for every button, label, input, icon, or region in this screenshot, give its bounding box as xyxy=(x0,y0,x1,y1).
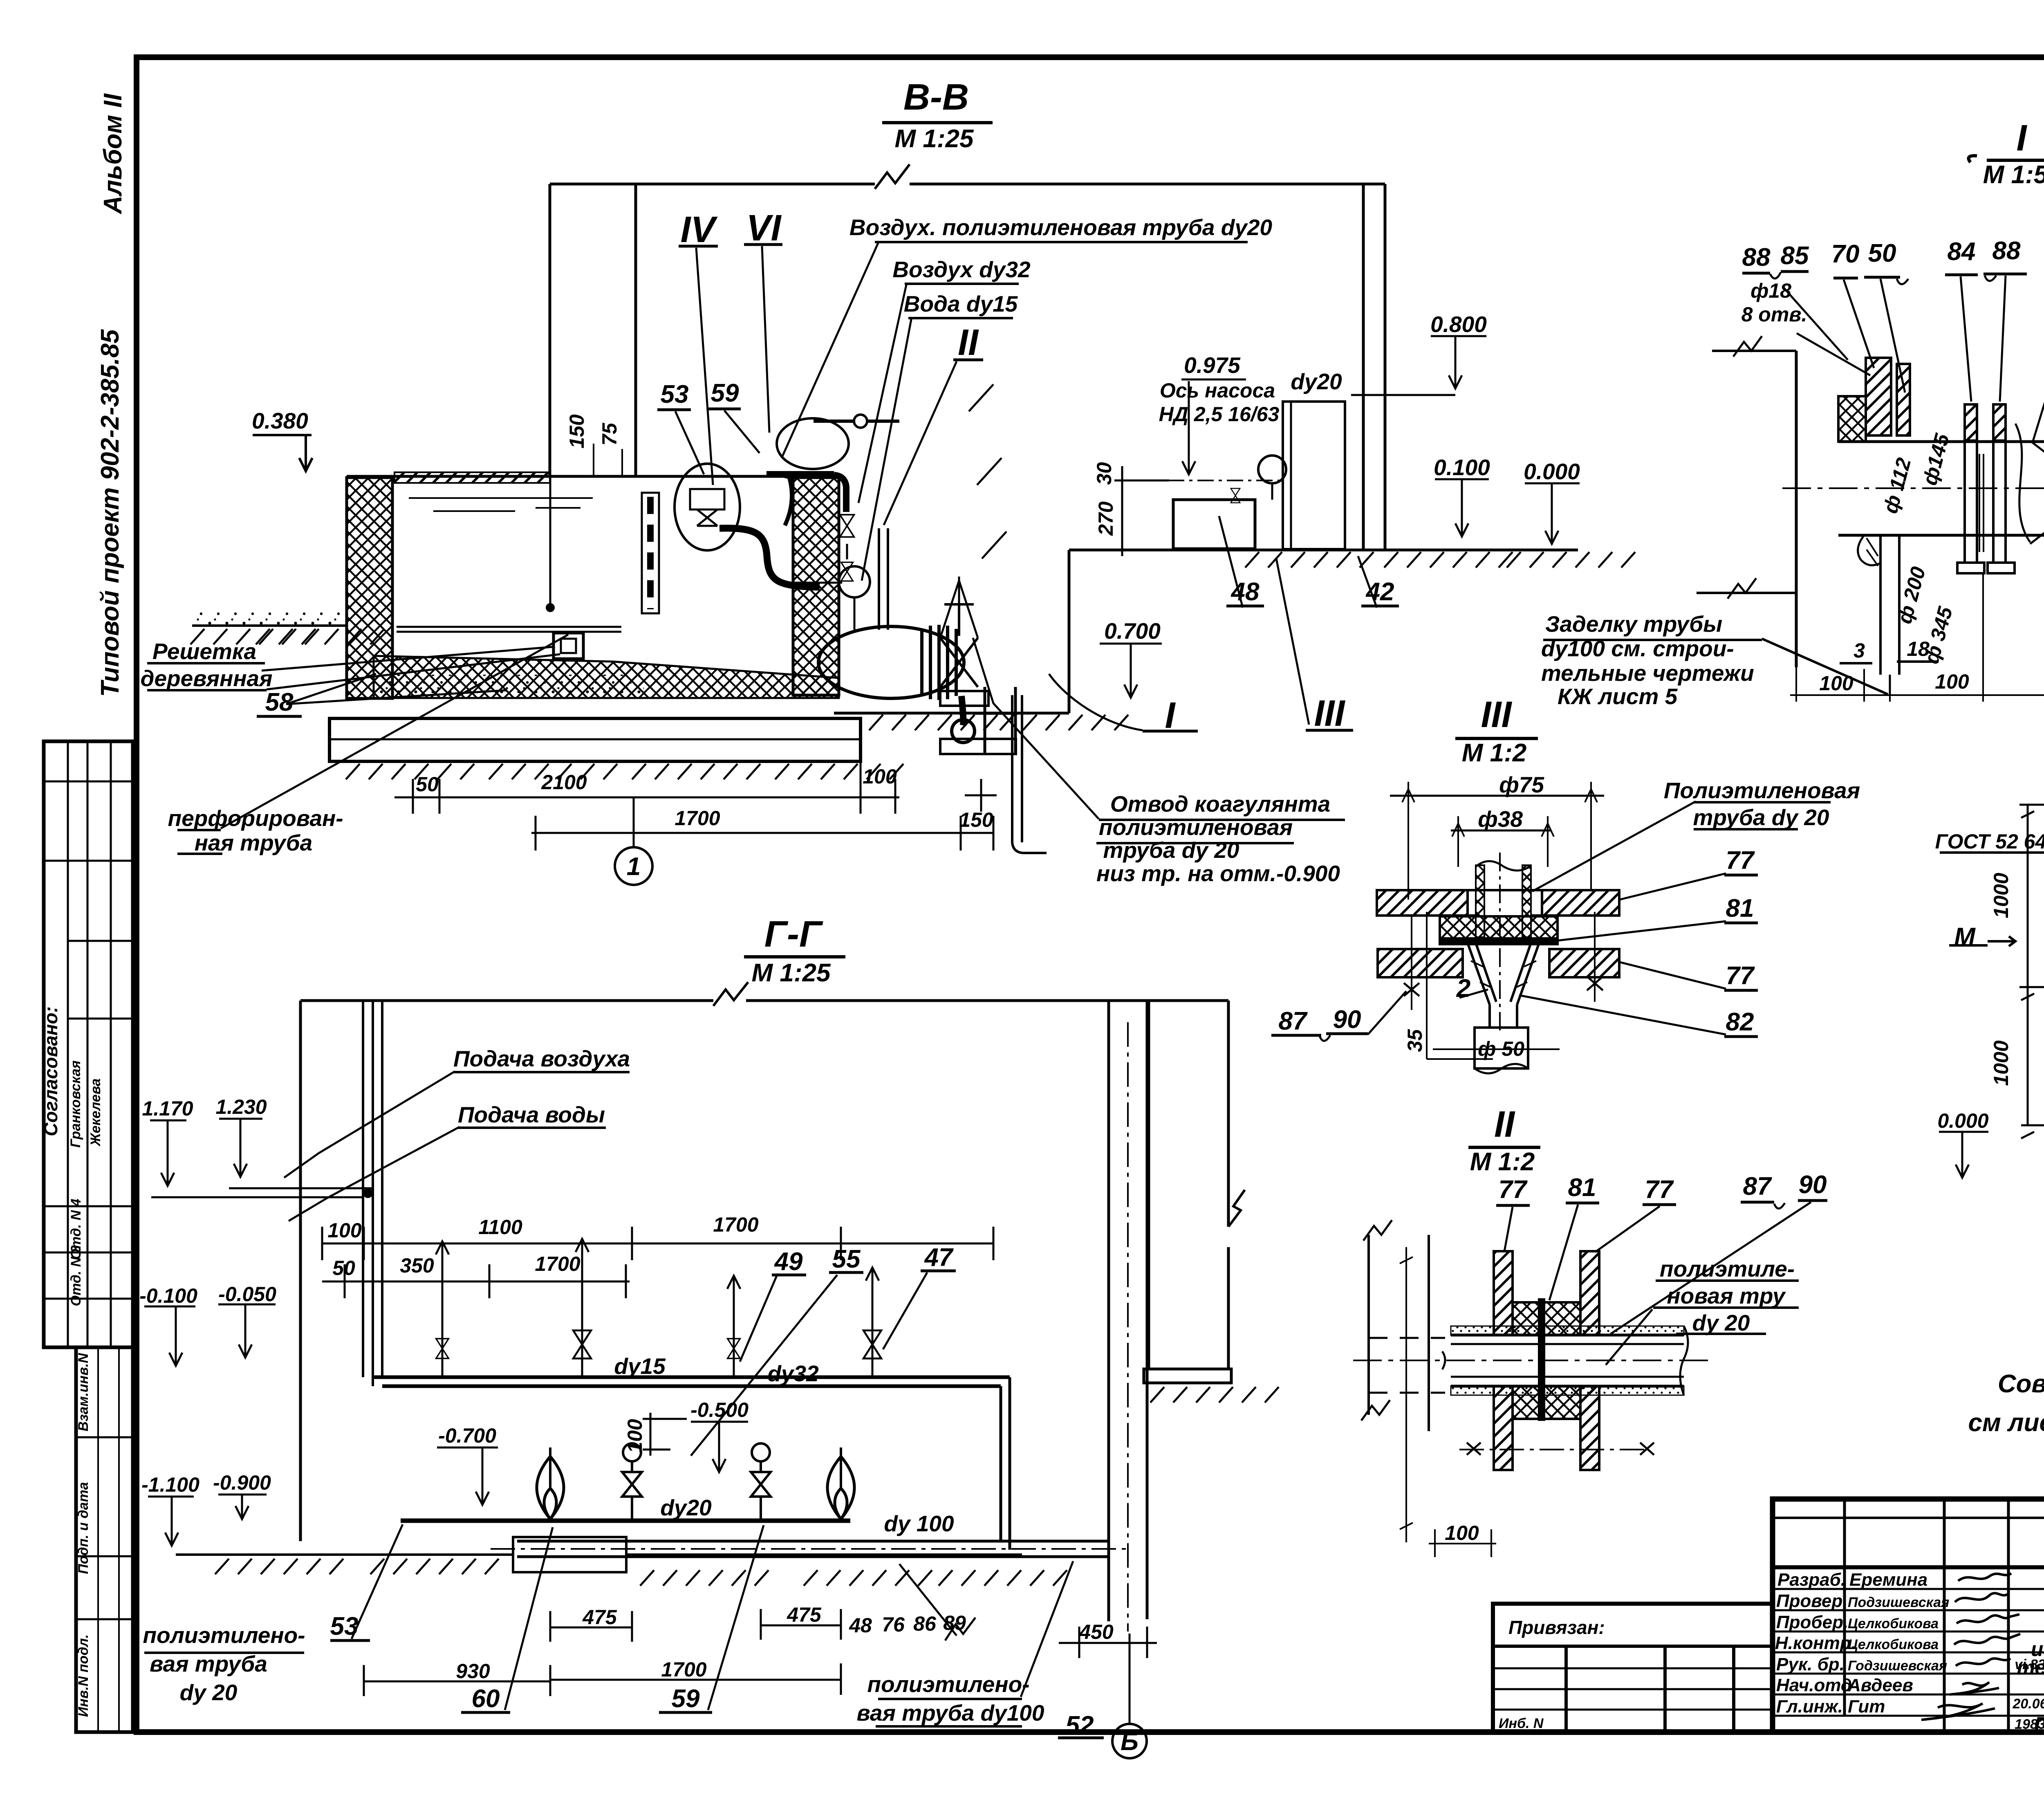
svg-text:Отвод коагулянта: Отвод коагулянта xyxy=(1110,791,1330,817)
svg-text:КЖ лист 5: КЖ лист 5 xyxy=(1558,684,1678,709)
svg-text:тельностью 10 куб. м. в час.: тельностью 10 куб. м. в час. xyxy=(2017,1656,2044,1679)
svg-text:Пробер.: Пробер. xyxy=(1776,1612,1848,1632)
svg-text:77: 77 xyxy=(1726,962,1755,990)
svg-text:75: 75 xyxy=(598,422,621,446)
svg-text:низ тр. на отм.-0.900: низ тр. на отм.-0.900 xyxy=(1096,861,1340,886)
svg-text:100: 100 xyxy=(1935,670,1969,693)
svg-text:90: 90 xyxy=(1333,1005,1361,1034)
svg-text:Согласовано:: Согласовано: xyxy=(40,1006,61,1136)
svg-text:труба dу 20: труба dу 20 xyxy=(1103,837,1239,863)
svg-text:100: 100 xyxy=(1445,1522,1479,1544)
svg-text:VI: VI xyxy=(746,208,782,249)
svg-text:1700: 1700 xyxy=(675,807,720,830)
svg-text:Нач.отд: Нач.отд xyxy=(1776,1675,1852,1695)
svg-text:100: 100 xyxy=(863,765,897,788)
svg-text:930: 930 xyxy=(456,1660,490,1683)
svg-text:70: 70 xyxy=(1831,240,1860,268)
svg-text:0.975: 0.975 xyxy=(1184,352,1241,378)
svg-text:53: 53 xyxy=(661,380,689,408)
svg-text:-1.100: -1.100 xyxy=(141,1473,199,1496)
svg-text:42: 42 xyxy=(1365,578,1394,606)
svg-text:II: II xyxy=(1494,1104,1515,1145)
svg-text:Еремина: Еремина xyxy=(1849,1570,1927,1590)
svg-text:20.06: 20.06 xyxy=(2012,1696,2044,1712)
svg-text:dу20: dу20 xyxy=(1291,369,1342,394)
svg-text:Вода dу15: Вода dу15 xyxy=(904,291,1018,316)
svg-text:77: 77 xyxy=(1645,1176,1674,1204)
svg-text:59: 59 xyxy=(672,1685,700,1713)
svg-text:тельные чертежи: тельные чертежи xyxy=(1541,660,1754,686)
svg-text:Воздух dу32: Воздух dу32 xyxy=(892,257,1031,282)
svg-text:Типовой проект 902-2-385.85: Типовой проект 902-2-385.85 xyxy=(96,329,124,697)
svg-text:полиэтиле-: полиэтиле- xyxy=(1660,1256,1795,1281)
svg-text:475: 475 xyxy=(582,1606,617,1629)
svg-text:Подача воды: Подача воды xyxy=(458,1102,605,1127)
svg-text:новая тру: новая тру xyxy=(1667,1283,1786,1308)
svg-text:77: 77 xyxy=(1726,846,1755,875)
svg-text:Гл.инж.: Гл.инж. xyxy=(1776,1697,1843,1717)
svg-text:500: 500 xyxy=(2041,923,2044,958)
svg-text:0.700: 0.700 xyxy=(1104,618,1161,644)
svg-text:dу32: dу32 xyxy=(767,1361,819,1386)
svg-text:Рук. бр.: Рук. бр. xyxy=(1776,1654,1845,1674)
svg-text:50: 50 xyxy=(416,773,439,796)
svg-text:Б: Б xyxy=(1121,1728,1139,1756)
svg-text:вая труба dу100: вая труба dу100 xyxy=(857,1700,1044,1726)
svg-text:II: II xyxy=(958,322,979,363)
svg-text:Годзишевская: Годзишевская xyxy=(1848,1658,1947,1674)
svg-text:Совместно с данным листом: Совместно с данным листом xyxy=(1998,1370,2044,1398)
svg-text:ф 50: ф 50 xyxy=(1478,1037,1524,1060)
svg-text:90: 90 xyxy=(1799,1171,1827,1199)
svg-text:35: 35 xyxy=(1403,1029,1426,1052)
svg-text:I: I xyxy=(1165,695,1176,736)
svg-text:dу 20: dу 20 xyxy=(1692,1310,1750,1335)
svg-text:60: 60 xyxy=(472,1685,500,1713)
svg-text:III: III xyxy=(1314,693,1345,734)
svg-text:Привязан:: Привязан: xyxy=(1508,1617,1605,1638)
svg-text:dу15: dу15 xyxy=(614,1353,666,1379)
svg-text:ГОСТ 52 64 -80: ГОСТ 52 64 -80 xyxy=(1935,830,2044,853)
svg-text:0.000: 0.000 xyxy=(1937,1109,1988,1132)
svg-text:М: М xyxy=(1954,923,1976,951)
svg-text:58: 58 xyxy=(265,688,294,716)
svg-text:вая труба: вая труба xyxy=(150,1651,267,1676)
svg-text:Ось насоса: Ось насоса xyxy=(1160,379,1275,402)
svg-text:М 1:25: М 1:25 xyxy=(752,959,831,987)
svg-text:Разраб.: Разраб. xyxy=(1777,1570,1846,1590)
svg-text:Провер.: Провер. xyxy=(1776,1591,1847,1611)
svg-text:dу20: dу20 xyxy=(660,1495,712,1520)
svg-text:0.100: 0.100 xyxy=(1434,455,1490,480)
svg-text:Целкобикова: Целкобикова xyxy=(1848,1637,1939,1652)
svg-text:100: 100 xyxy=(1819,672,1853,695)
svg-text:полиэтиленовая: полиэтиленовая xyxy=(1099,815,1293,840)
svg-text:0.000: 0.000 xyxy=(1524,459,1580,484)
svg-text:350: 350 xyxy=(400,1254,434,1277)
svg-text:48: 48 xyxy=(1230,578,1260,606)
svg-text:Отд. N 3: Отд. N 3 xyxy=(68,1245,84,1306)
svg-text:475: 475 xyxy=(787,1603,822,1626)
svg-text:270: 270 xyxy=(1094,501,1117,536)
svg-text:труба dу 20: труба dу 20 xyxy=(1693,805,1829,830)
svg-text:Заделку трубы: Заделку трубы xyxy=(1545,611,1722,637)
svg-text:деревянная: деревянная xyxy=(140,666,272,691)
svg-text:Альбом II: Альбом II xyxy=(99,93,127,215)
svg-text:полиэтилено-: полиэтилено- xyxy=(143,1622,305,1648)
svg-text:М 1:25: М 1:25 xyxy=(895,125,974,153)
svg-text:88: 88 xyxy=(1992,237,2021,265)
svg-text:30: 30 xyxy=(1093,462,1116,485)
svg-text:88: 88 xyxy=(1742,243,1771,272)
svg-text:8 отв.: 8 отв. xyxy=(1741,303,1807,326)
svg-text:77: 77 xyxy=(1499,1176,1528,1204)
svg-text:Авдеев: Авдеев xyxy=(1847,1675,1913,1695)
svg-text:450: 450 xyxy=(1079,1620,1114,1643)
svg-text:ф38: ф38 xyxy=(1478,806,1523,832)
svg-text:81: 81 xyxy=(1726,894,1754,922)
svg-text:ф18: ф18 xyxy=(1750,279,1791,302)
svg-text:87: 87 xyxy=(1279,1007,1308,1035)
svg-text:-0.100: -0.100 xyxy=(139,1284,197,1307)
svg-text:Гит: Гит xyxy=(1848,1697,1885,1717)
svg-text:полиэтилено-: полиэтилено- xyxy=(867,1672,1029,1697)
svg-text:ф75: ф75 xyxy=(1499,772,1544,797)
svg-text:55: 55 xyxy=(832,1245,861,1273)
svg-text:53: 53 xyxy=(330,1612,359,1640)
svg-text:-0.500: -0.500 xyxy=(690,1398,749,1421)
svg-text:Подп. и дата: Подп. и дата xyxy=(76,1482,91,1574)
svg-text:76: 76 xyxy=(882,1613,905,1636)
svg-text:М 1:5: М 1:5 xyxy=(1983,161,2044,189)
svg-text:50: 50 xyxy=(1868,239,1896,267)
svg-text:Целкобикова: Целкобикова xyxy=(1848,1616,1939,1631)
svg-text:86: 86 xyxy=(913,1612,937,1635)
svg-text:81: 81 xyxy=(1568,1174,1596,1202)
svg-text:I: I xyxy=(2016,118,2027,159)
svg-text:1000: 1000 xyxy=(1990,873,2013,918)
svg-text:1700: 1700 xyxy=(661,1658,706,1681)
svg-text:Инб. N: Инб. N xyxy=(1499,1716,1544,1731)
svg-text:1000: 1000 xyxy=(1990,1040,2013,1086)
svg-text:84: 84 xyxy=(1948,238,1976,266)
svg-text:82: 82 xyxy=(1726,1008,1754,1036)
svg-text:IV: IV xyxy=(680,209,718,250)
svg-text:100: 100 xyxy=(327,1219,362,1242)
svg-text:150: 150 xyxy=(959,808,993,831)
svg-text:0.800: 0.800 xyxy=(1430,312,1487,337)
svg-text:1700: 1700 xyxy=(713,1213,758,1236)
svg-text:dу 100: dу 100 xyxy=(884,1511,954,1536)
svg-text:Н.контр.: Н.контр. xyxy=(1775,1633,1856,1653)
svg-text:dу 20: dу 20 xyxy=(180,1680,238,1705)
svg-text:III: III xyxy=(1481,694,1512,735)
svg-text:Полиэтиленовая: Полиэтиленовая xyxy=(1664,778,1860,803)
svg-text:52: 52 xyxy=(1066,1711,1094,1739)
svg-text:Г-Г: Г-Г xyxy=(764,914,823,955)
svg-text:3: 3 xyxy=(1853,639,1865,662)
svg-text:ная труба: ная труба xyxy=(195,830,312,855)
svg-text:М 1:2: М 1:2 xyxy=(1470,1148,1535,1176)
svg-text:1: 1 xyxy=(627,853,641,881)
svg-text:1700: 1700 xyxy=(535,1252,580,1275)
svg-text:Площадка передвижная.: Площадка передвижная. xyxy=(2034,1713,2044,1736)
svg-text:М 1:2: М 1:2 xyxy=(1462,739,1526,767)
svg-text:100: 100 xyxy=(623,1419,646,1453)
svg-text:2100: 2100 xyxy=(541,771,587,794)
svg-text:Воздух. полиэтиленовая труба d: Воздух. полиэтиленовая труба dу20 xyxy=(849,215,1273,240)
svg-text:Подача воздуха: Подача воздуха xyxy=(453,1046,630,1071)
svg-text:87: 87 xyxy=(1743,1172,1772,1201)
svg-text:-0.700: -0.700 xyxy=(438,1424,496,1447)
svg-text:Взам.инв.N: Взам.инв.N xyxy=(76,1353,91,1432)
svg-text:Жекелева: Жекелева xyxy=(88,1078,103,1147)
svg-text:89: 89 xyxy=(943,1611,966,1634)
svg-text:0.380: 0.380 xyxy=(252,408,308,433)
svg-text:Решетка: Решетка xyxy=(152,639,256,664)
svg-text:48: 48 xyxy=(849,1614,872,1637)
svg-text:Подзишевская: Подзишевская xyxy=(1848,1595,1949,1610)
svg-text:Инв.N подл.: Инв.N подл. xyxy=(76,1634,91,1717)
svg-text:-0.900: -0.900 xyxy=(213,1471,271,1494)
svg-text:НД 2,5 16/63: НД 2,5 16/63 xyxy=(1159,403,1280,426)
svg-text:1100: 1100 xyxy=(478,1216,522,1239)
svg-text:47: 47 xyxy=(924,1243,954,1272)
svg-text:перфорирован-: перфорирован- xyxy=(168,806,343,831)
svg-text:1.170: 1.170 xyxy=(142,1097,193,1120)
svg-text:см листы .: см листы . xyxy=(1968,1409,2044,1437)
svg-text:1.230: 1.230 xyxy=(215,1095,267,1118)
svg-text:50: 50 xyxy=(332,1257,355,1279)
svg-text:49: 49 xyxy=(774,1248,803,1276)
svg-text:150: 150 xyxy=(565,414,588,449)
svg-text:В-В: В-В xyxy=(903,77,969,118)
svg-text:85: 85 xyxy=(1781,242,1809,270)
svg-text:-0.050: -0.050 xyxy=(218,1283,276,1306)
svg-text:Гранковская: Гранковская xyxy=(68,1060,83,1147)
svg-text:2: 2 xyxy=(1456,974,1470,1003)
svg-text:59: 59 xyxy=(711,379,739,407)
svg-text:18: 18 xyxy=(1907,637,1930,660)
